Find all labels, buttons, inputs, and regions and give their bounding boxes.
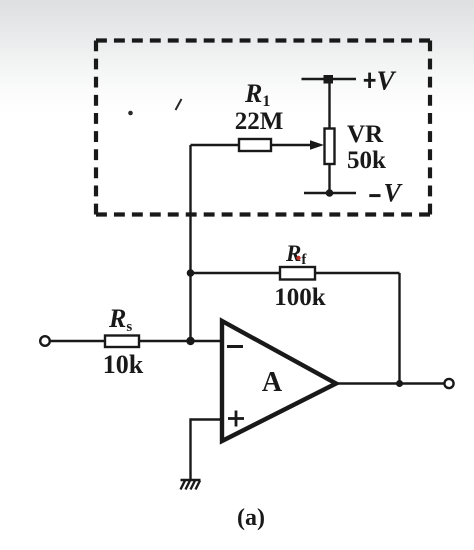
resistor R1 body — [239, 139, 271, 151]
wire: feedback vertical down to output node — [398, 273, 400, 384]
svg-text:(a): (a) — [237, 505, 265, 531]
input terminal — [40, 336, 50, 346]
wire: +V rail to VR top — [328, 79, 330, 129]
junction square on +V rail — [324, 75, 334, 84]
op-amp A triangle — [222, 321, 336, 441]
resistor Rs body — [105, 336, 139, 348]
ground symbol — [181, 480, 201, 490]
non-inverting input plus sign — [228, 411, 244, 427]
wire: Rf to feedback corner — [315, 272, 400, 274]
junction dot at feedback/output node — [396, 380, 403, 387]
dashed enclosure box (gain-adjust network) — [96, 41, 430, 215]
label -V — [369, 194, 380, 197]
svg-text:A: A — [262, 367, 283, 398]
svg-text:R1: R1 — [244, 79, 270, 110]
wire: ground to non-inverting input — [191, 420, 223, 481]
wire: main vertical node from R1 down to inverting input — [189, 145, 191, 341]
wire: node to Rf — [191, 272, 281, 274]
svg-text:V: V — [377, 66, 397, 96]
svg-text:VR: VR — [347, 121, 384, 148]
wire: node N1 corner to R1 — [191, 144, 240, 146]
wire: input terminal to Rs — [51, 340, 106, 342]
wire: VR bottom to -V rail — [328, 164, 330, 193]
svg-text:22M: 22M — [235, 108, 284, 135]
svg-text:Rf: Rf — [285, 241, 307, 268]
svg-text:10k: 10k — [103, 350, 144, 379]
svg-text:50k: 50k — [347, 147, 386, 174]
wire: op-amp output to output terminal — [336, 382, 445, 384]
svg-text:Rs: Rs — [108, 304, 132, 335]
VR wiper arrow — [310, 140, 324, 150]
label +V — [364, 73, 376, 88]
output terminal — [444, 379, 453, 388]
junction dot at inverting input node — [186, 337, 194, 345]
junction dot at Rf tap — [187, 269, 195, 277]
wire: R1 to VR wiper arrow — [271, 144, 311, 146]
svg-text:100k: 100k — [274, 284, 326, 311]
red speck on Rf label — [296, 256, 300, 260]
wire: +V rail bar — [302, 78, 357, 80]
wire: -V rail bar — [304, 192, 356, 194]
svg-text:V: V — [384, 179, 404, 208]
inverting input minus sign — [227, 345, 243, 348]
resistor Rf body — [280, 267, 315, 280]
junction dot on -V rail — [326, 189, 334, 197]
potentiometer VR body — [325, 129, 335, 165]
wire: Rs to inverting input — [139, 340, 222, 342]
